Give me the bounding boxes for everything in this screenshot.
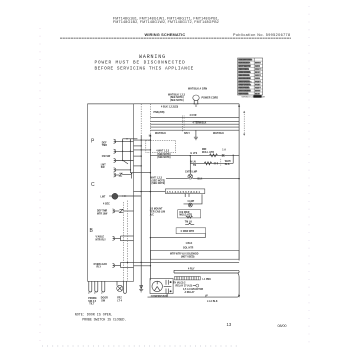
svg-text:SW 4,5: SW 4,5 bbox=[88, 300, 97, 303]
bus lower junction arrow bbox=[238, 295, 240, 298]
svg-text:V'ABLE: V'ABLE bbox=[96, 236, 105, 239]
lamp wire from left bbox=[166, 178, 188, 180]
svg-text:4 CVR: 4 CVR bbox=[190, 114, 197, 117]
svg-text:Publication No. 5995206778: Publication No. 5995206778 bbox=[233, 33, 291, 37]
wiring color code legend table bbox=[238, 58, 266, 99]
svg-text:(SEE NOTE): (SEE NOTE) bbox=[170, 100, 184, 102]
wire down to center lamp bbox=[189, 156, 191, 174]
svg-text:LMT: LMT bbox=[101, 197, 106, 199]
svg-text:SPLY: SPLY bbox=[184, 133, 190, 135]
svg-text:1 BLK: 1 BLK bbox=[186, 243, 193, 245]
svg-text:C MKR MTR: C MKR MTR bbox=[181, 231, 195, 233]
run winding loop wire bottom bbox=[174, 272, 238, 274]
ice maker mold heater box bbox=[178, 210, 201, 219]
svg-text:(SEE NOTE): (SEE NOTE) bbox=[152, 180, 166, 182]
neutral ground symbol bbox=[139, 286, 143, 292]
lower heater resistor bbox=[204, 162, 212, 165]
svg-text:LMT: LMT bbox=[101, 164, 106, 166]
run winding loop wire top bbox=[174, 269, 238, 271]
svg-text:(SEE NOTE): (SEE NOTE) bbox=[157, 157, 170, 159]
row2 ticks bbox=[214, 162, 217, 164]
mullion heater resistor bbox=[210, 154, 218, 157]
svg-text:N LN: N LN bbox=[190, 161, 196, 163]
thermal cutout component bbox=[185, 221, 194, 224]
water valve solenoid box bbox=[150, 250, 239, 259]
timer contact dashed vertical B bbox=[127, 201, 129, 282]
svg-text:CNTR LMP: CNTR LMP bbox=[185, 171, 198, 173]
svg-text:WHT 1,2,3: WHT 1,2,3 bbox=[151, 178, 163, 180]
svg-text:DOOR: DOOR bbox=[101, 298, 108, 300]
svg-text:TH (4) (3) 2: TH (4) (3) 2 bbox=[173, 281, 186, 284]
svg-text:TILT: TILT bbox=[89, 304, 94, 306]
wire above solenoid box bbox=[150, 237, 205, 239]
ice lamp symbol bbox=[188, 203, 192, 207]
svg-text:SW: SW bbox=[101, 167, 106, 169]
svg-text:4 SEC: 4 SEC bbox=[103, 202, 110, 205]
svg-text:4 WHT 1,2,3: 4 WHT 1,2,3 bbox=[156, 150, 170, 153]
svg-text:MTR WTR VLV SOLENOID: MTR WTR VLV SOLENOID bbox=[170, 253, 199, 255]
svg-text:WHT/BLK A GRN: WHT/BLK A GRN bbox=[188, 88, 207, 91]
ice maker motor box bbox=[176, 228, 206, 234]
overload pigtail component bbox=[206, 295, 208, 297]
power cord plug symbol bbox=[193, 95, 199, 107]
svg-text:(NOT USED): (NOT USED) bbox=[181, 257, 195, 259]
terminal block tick marks bbox=[181, 116, 183, 132]
svg-text:WHT/: WHT/ bbox=[225, 161, 231, 163]
legend caption black block bbox=[253, 95, 261, 98]
svg-text:RELAY 27 (4,5): RELAY 27 (4,5) bbox=[176, 284, 193, 287]
terminal block wire 5 bbox=[150, 129, 239, 131]
svg-text:TN: TN bbox=[193, 165, 196, 167]
run winding loop left join bbox=[173, 270, 175, 273]
P relay row 4 switch bbox=[114, 168, 131, 172]
svg-text:L1 A BLK: L1 A BLK bbox=[207, 300, 218, 303]
P relay row 3 switch bbox=[101, 158, 134, 169]
svg-text:P: P bbox=[91, 139, 95, 145]
wire to terminal strip bbox=[134, 191, 166, 193]
svg-text:1 A: 1 A bbox=[222, 148, 226, 151]
svg-text:PROBE SWITCH IS CLOSED.: PROBE SWITCH IS CLOSED. bbox=[82, 319, 126, 323]
svg-text:DEF TMR: DEF TMR bbox=[97, 210, 108, 212]
svg-text:POWER MUST BE DISCONNECTED: POWER MUST BE DISCONNECTED bbox=[95, 61, 186, 66]
svg-text:BLK: BLK bbox=[225, 164, 230, 166]
P row 1 wires to buses bbox=[134, 139, 151, 141]
svg-text:MTR 10W: MTR 10W bbox=[97, 213, 108, 215]
svg-text:CW SW: CW SW bbox=[102, 156, 111, 158]
row2 dashed vertical bbox=[220, 159, 222, 167]
wire from strip down to lamp bbox=[184, 194, 186, 198]
svg-text:PNK(20B): PNK(20B) bbox=[154, 112, 165, 114]
svg-text:SW: SW bbox=[101, 300, 106, 302]
terminal strip connector bbox=[165, 189, 204, 194]
svg-text:L1 PNK: L1 PNK bbox=[203, 279, 212, 281]
P row 4 wires to buses bbox=[134, 165, 142, 167]
compressor start relay contacts bbox=[164, 280, 172, 294]
svg-text:H LTS: H LTS bbox=[191, 153, 198, 155]
svg-text:A RELAY: A RELAY bbox=[185, 291, 196, 294]
svg-text:4 BLK 1,2,3(13): 4 BLK 1,2,3(13) bbox=[161, 106, 178, 109]
svg-text:RLY: RLY bbox=[97, 267, 102, 269]
overload relay switch bbox=[113, 262, 134, 268]
P relay row 5 switch bbox=[114, 173, 133, 179]
P row 3 wires to buses bbox=[134, 155, 142, 157]
svg-text:08/00: 08/00 bbox=[278, 324, 287, 328]
lamp wire to bus bbox=[193, 178, 239, 180]
svg-text:(SEE NOTE): (SEE NOTE) bbox=[152, 183, 166, 185]
svg-text:MTR RLY: MTR RLY bbox=[96, 239, 107, 241]
svg-text:B: B bbox=[90, 228, 94, 234]
svg-text:WHT/BLK: WHT/BLK bbox=[213, 133, 224, 135]
svg-text:4,5 A CAPACITOR: 4,5 A CAPACITOR bbox=[183, 288, 203, 291]
svg-text:DEF: DEF bbox=[102, 142, 107, 144]
right side bus wire bbox=[238, 104, 240, 261]
page border dotted bottom bbox=[42, 345, 240, 347]
center lamp symbol bbox=[188, 174, 193, 179]
header rule bbox=[60, 37, 291, 39]
long neutral return wire bbox=[134, 261, 240, 263]
svg-text:C: C bbox=[91, 182, 95, 188]
terminal block wire 4 bbox=[150, 126, 239, 128]
svg-text:13: 13 bbox=[227, 322, 232, 327]
timer contact dashed vertical A bbox=[123, 202, 125, 281]
svg-text:TMR: TMR bbox=[102, 145, 107, 147]
top supply rail wire bbox=[88, 103, 240, 105]
P relay contact rail B bbox=[129, 139, 131, 173]
compressor shell box bbox=[150, 279, 173, 294]
defrost thermostat bbox=[101, 193, 142, 199]
svg-text:WIRING SCHEMATIC: WIRING SCHEMATIC bbox=[145, 32, 186, 37]
neutral vertical wire bbox=[140, 104, 142, 135]
terminal block wire 2 bbox=[150, 120, 239, 122]
page border dotted left bbox=[39, 28, 41, 346]
cabinet wiring enclosure box bbox=[88, 104, 134, 281]
defrost timer switch bbox=[113, 209, 134, 213]
svg-text:BEFORE SERVICING THIS APPLIANC: BEFORE SERVICING THIS APPLIANCE bbox=[95, 67, 194, 72]
P row 2 wires to buses bbox=[134, 149, 151, 151]
svg-text:WHT/BLK 1,2,3: WHT/BLK 1,2,3 bbox=[168, 94, 186, 96]
svg-text:MULL HTR: MULL HTR bbox=[202, 152, 214, 154]
overload lower wire bbox=[134, 265, 151, 267]
terminal block wire 3 bbox=[150, 123, 239, 125]
ptc start device bbox=[193, 284, 199, 287]
svg-text:OVERLOAD: OVERLOAD bbox=[94, 263, 108, 266]
svg-text:FMT148G1B2, FMT148G1W2, FMT148: FMT148G1B2, FMT148G1W2, FMT148G1T2, FMT1… bbox=[113, 20, 219, 24]
compressor pin strip bbox=[175, 277, 201, 280]
svg-text:ICE MKR: ICE MKR bbox=[179, 212, 189, 214]
svg-text:1/3 MOUNT: 1/3 MOUNT bbox=[150, 209, 163, 211]
svg-text:TER CAB LIM: TER CAB LIM bbox=[150, 211, 165, 214]
svg-text:PROBE: PROBE bbox=[88, 298, 97, 300]
page border dotted right bbox=[308, 6, 310, 346]
svg-text:4,5,1,2,3,4,5,6,7,8,9,0,1: 4,5,1,2,3,4,5,6,7,8,9,0,1 bbox=[167, 190, 201, 194]
P relay row 1 switch bbox=[102, 138, 138, 147]
svg-text:4 RLY: 4 RLY bbox=[188, 268, 195, 271]
ground symbol below terminal block bbox=[194, 130, 198, 140]
svg-text:WHT/BLK: WHT/BLK bbox=[155, 133, 166, 135]
svg-text:FRZ: FRZ bbox=[117, 298, 122, 300]
svg-text:MOLD HTR: MOLD HTR bbox=[179, 215, 192, 217]
svg-text:SOL HTR: SOL HTR bbox=[183, 247, 194, 249]
compressor motor circle bbox=[152, 281, 162, 291]
svg-text:(SEE NOTE): (SEE NOTE) bbox=[170, 97, 184, 99]
door switch hanging component bbox=[101, 281, 108, 302]
start loop right vertical bbox=[238, 273, 239, 297]
P relay row 2 switch bbox=[102, 149, 134, 158]
left feeder vertical wire L1 bbox=[149, 104, 151, 135]
svg-text:A/C: A/C bbox=[150, 214, 154, 217]
svg-text:LT 4: LT 4 bbox=[117, 299, 122, 302]
P relay contact rail A bbox=[122, 139, 124, 161]
run winding loop right arc bbox=[238, 270, 239, 273]
dashed note box bbox=[146, 140, 176, 152]
start winding bottom wire bbox=[148, 296, 238, 298]
svg-text:NOTE: DOOR IS OPEN.: NOTE: DOOR IS OPEN. bbox=[75, 313, 113, 317]
svg-text:MID: MID bbox=[202, 149, 207, 151]
svg-text:TM LK: TM LK bbox=[185, 221, 193, 223]
svg-text:4 LMP: 4 LMP bbox=[187, 200, 194, 203]
probe switch hanging component bbox=[88, 281, 98, 305]
door liner L wire bbox=[184, 194, 203, 204]
lower heater wire bbox=[191, 162, 234, 164]
stile motor relay switch bbox=[113, 236, 134, 241]
P row 3 jog wire bbox=[123, 161, 128, 164]
mullion heater wire bbox=[150, 154, 239, 156]
svg-text:WARNING: WARNING bbox=[139, 54, 166, 60]
dashed jumper wire right bbox=[243, 112, 245, 136]
freezer light hanging component bbox=[117, 281, 127, 302]
row1 junction cross bbox=[222, 154, 224, 156]
terminal block wire 1 bbox=[150, 116, 239, 118]
svg-text:POWER CORD: POWER CORD bbox=[202, 98, 219, 100]
